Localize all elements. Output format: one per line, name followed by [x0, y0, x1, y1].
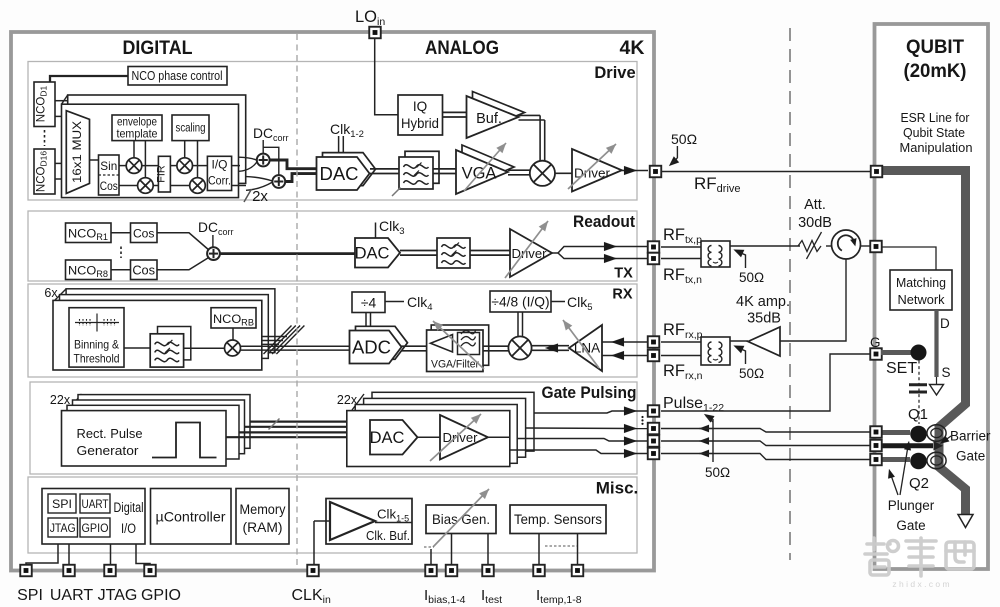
svg-text:SET: SET [886, 360, 917, 377]
svg-text:Hybrid: Hybrid [401, 116, 439, 131]
svg-text:Cos: Cos [132, 263, 155, 278]
svg-text:Threshold: Threshold [74, 352, 120, 366]
svg-text:UART: UART [82, 497, 109, 511]
svg-text:Gate: Gate [896, 518, 925, 533]
svg-text:I/O: I/O [121, 521, 136, 536]
svg-text:Generator: Generator [77, 443, 140, 458]
svg-text:Buf.: Buf. [476, 111, 502, 127]
svg-text:30dB: 30dB [798, 215, 832, 231]
svg-text:µController: µController [156, 509, 226, 525]
svg-text:÷4: ÷4 [361, 296, 377, 311]
svg-text:I/Q: I/Q [212, 159, 228, 171]
svg-text:Binning &: Binning & [74, 338, 119, 352]
svg-text:Misc.: Misc. [596, 479, 639, 498]
svg-text:JTAG: JTAG [50, 521, 76, 535]
svg-text:(RAM): (RAM) [243, 519, 283, 535]
svg-text:Temp. Sensors: Temp. Sensors [514, 511, 602, 527]
svg-text:RX: RX [612, 287, 632, 303]
svg-text:Memory: Memory [240, 501, 286, 517]
svg-text:Cos: Cos [100, 179, 118, 193]
svg-text:Cos: Cos [133, 226, 155, 240]
svg-text:S: S [942, 365, 951, 380]
svg-text:TX: TX [614, 266, 633, 282]
svg-text:Clk. Buf.: Clk. Buf. [366, 528, 410, 543]
svg-text:template: template [117, 127, 158, 141]
svg-text:Plunger: Plunger [888, 498, 935, 513]
svg-text:Gate Pulsing: Gate Pulsing [542, 383, 637, 402]
svg-text:Manipulation: Manipulation [900, 140, 973, 155]
svg-text:Corr.: Corr. [208, 176, 231, 188]
svg-text:z h i d x . c o m: z h i d x . c o m [892, 579, 949, 589]
svg-text:NCO phase control: NCO phase control [132, 69, 223, 83]
svg-text:Network: Network [898, 292, 945, 307]
svg-text:Drive: Drive [594, 64, 635, 82]
svg-text:35dB: 35dB [747, 311, 781, 327]
svg-text:Sin: Sin [100, 159, 117, 173]
svg-text:GPIO: GPIO [82, 521, 109, 535]
svg-text:Att.: Att. [804, 197, 826, 213]
svg-text:Rect. Pulse: Rect. Pulse [77, 426, 143, 441]
svg-text:SPI: SPI [17, 587, 43, 604]
svg-text:Qubit State: Qubit State [903, 125, 965, 140]
svg-text:Digital: Digital [114, 500, 144, 515]
svg-text:4K: 4K [620, 37, 645, 59]
svg-text:Q1: Q1 [908, 406, 928, 423]
svg-text:FIR: FIR [156, 165, 168, 183]
svg-text:scaling: scaling [176, 121, 206, 135]
svg-text:2x: 2x [252, 188, 268, 205]
svg-text:÷4/8 (I/Q): ÷4/8 (I/Q) [491, 295, 549, 310]
svg-text:UART: UART [50, 587, 93, 604]
svg-text:DAC: DAC [370, 429, 405, 447]
svg-text:QUBIT: QUBIT [906, 36, 964, 58]
svg-text:Gate: Gate [956, 449, 985, 464]
svg-text:IQ: IQ [413, 99, 427, 114]
svg-text:50Ω: 50Ω [705, 465, 730, 480]
svg-text:50Ω: 50Ω [739, 366, 764, 381]
svg-text:Readout: Readout [573, 212, 635, 231]
svg-text:4K amp.: 4K amp. [736, 294, 790, 310]
svg-text:ESR Line for: ESR Line for [901, 110, 971, 125]
svg-text:ANALOG: ANALOG [425, 37, 499, 59]
svg-text:Q2: Q2 [909, 475, 929, 492]
svg-text:Driver: Driver [512, 246, 548, 261]
svg-text:DAC: DAC [355, 245, 390, 263]
svg-text:SPI: SPI [52, 497, 72, 511]
svg-text:DIGITAL: DIGITAL [123, 37, 193, 59]
svg-text:50Ω: 50Ω [671, 131, 697, 147]
svg-text:JTAG: JTAG [98, 587, 138, 604]
svg-text:DAC: DAC [319, 163, 358, 184]
svg-text:Barrier: Barrier [950, 429, 991, 444]
svg-text:ADC: ADC [352, 337, 391, 358]
svg-text:(20mK): (20mK) [904, 60, 967, 82]
svg-text:Matching: Matching [896, 275, 946, 290]
svg-text:VGA/Filter: VGA/Filter [431, 359, 479, 371]
svg-text:16x1 MUX: 16x1 MUX [70, 121, 84, 183]
svg-text:50Ω: 50Ω [739, 270, 764, 285]
svg-text:D: D [940, 316, 950, 331]
svg-text:GPIO: GPIO [141, 587, 181, 604]
